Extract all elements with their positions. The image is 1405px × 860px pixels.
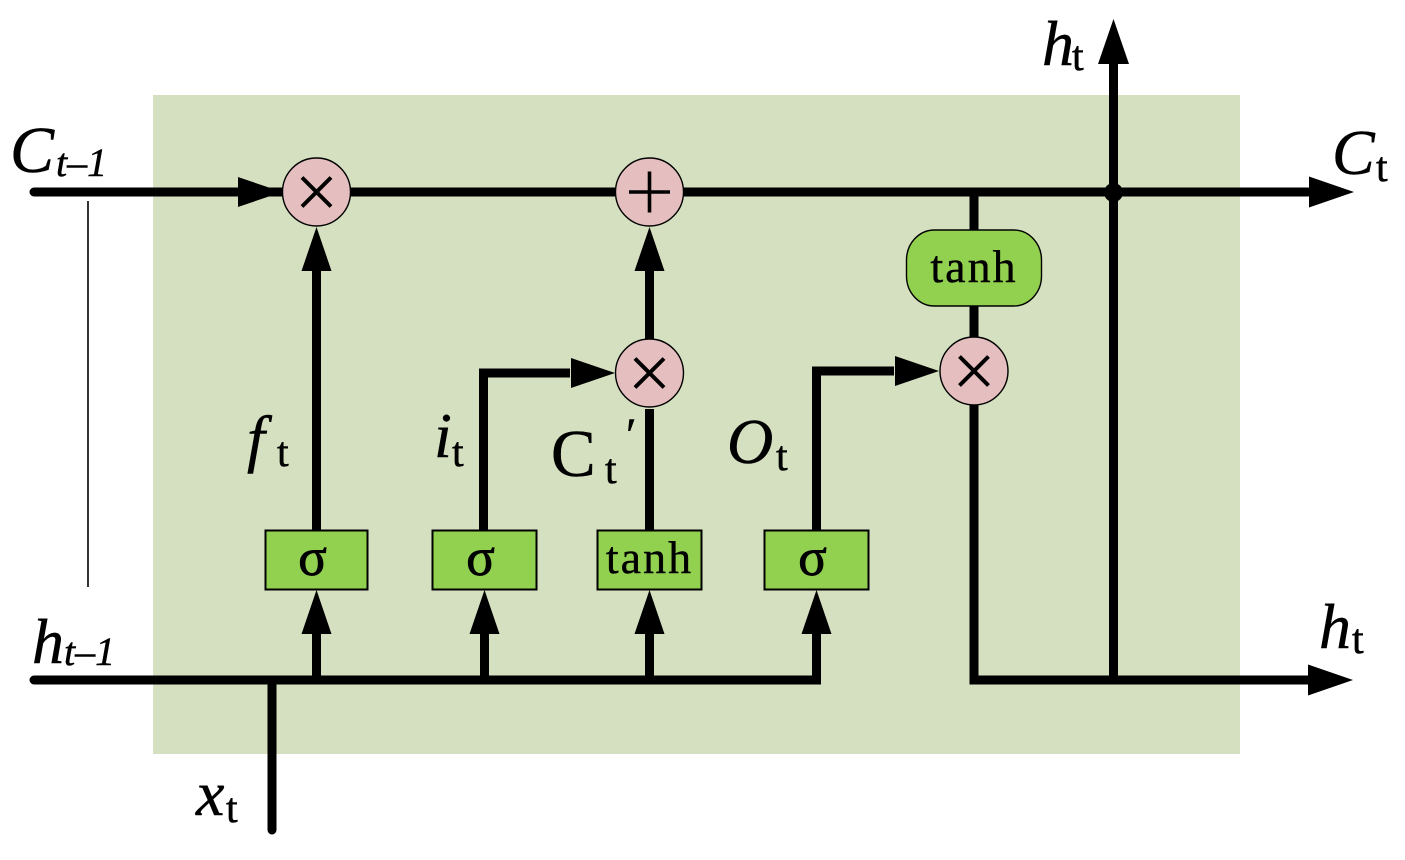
svg-text:′: ′ (626, 409, 637, 462)
svg-text:t–1: t–1 (64, 629, 115, 674)
wire: C line branch down into tanh capsule (970, 192, 979, 232)
svg-text:t: t (776, 434, 788, 480)
plus node (616, 158, 684, 226)
sigma gate (output) (765, 531, 869, 590)
arrowhead into O gate (802, 590, 832, 634)
svg-text:t: t (452, 430, 464, 476)
svg-text:x: x (195, 758, 224, 829)
svg-text:σ: σ (298, 529, 327, 587)
svg-text:O: O (727, 406, 773, 477)
thin recurrence line (87, 201, 89, 587)
multiply node 2 (616, 339, 684, 407)
wire: multiply node 2 up to plus node (645, 270, 654, 340)
tanh capsule (907, 230, 1042, 306)
svg-text:t: t (1376, 145, 1388, 191)
wire: cell state line C (34, 188, 1308, 197)
svg-text:t: t (1072, 34, 1084, 80)
wire+arrow: h into input gate (480, 632, 489, 680)
wire: tanh capsule to multiply node 3 (970, 304, 979, 340)
wire: multiply node 3 down and right to h_t output (974, 404, 1308, 680)
svg-text:t: t (277, 430, 289, 476)
multiply node 1 (283, 158, 351, 226)
svg-text:t–1: t–1 (56, 140, 107, 185)
wire+arrow: h into forget gate (312, 632, 321, 680)
svg-text:t: t (1352, 617, 1364, 663)
sigma gate (input) (433, 531, 537, 590)
multiply node 3 (940, 337, 1008, 405)
junction node on C line (1104, 183, 1123, 202)
svg-text:C: C (10, 114, 55, 187)
wire: O_t elbow into multiply node 3 (817, 371, 895, 532)
wire+arrow: h into tanh gate (645, 632, 654, 680)
svg-text:σ: σ (798, 529, 827, 587)
svg-text:σ: σ (466, 529, 495, 587)
svg-text:t: t (226, 786, 238, 832)
svg-text:t: t (605, 447, 617, 493)
svg-text:h: h (32, 606, 64, 677)
cell background (153, 95, 1240, 754)
wire: bottom h line left segment with corner up into sigma O gate (34, 633, 817, 680)
tanh gate (598, 531, 702, 590)
svg-text:C: C (1332, 117, 1376, 188)
svg-text:tanh: tanh (930, 241, 1017, 292)
svg-text:h: h (1042, 8, 1074, 79)
wire: C' from tanh gate up to multiply node 2 (645, 409, 654, 532)
svg-text:i: i (434, 400, 452, 471)
arrowhead C_t output (1309, 177, 1354, 208)
wire: i_t elbow into multiply node 2 (484, 373, 571, 532)
wire: h_t vertical output up (1109, 62, 1118, 680)
svg-text:h: h (1319, 591, 1351, 662)
svg-text:tanh: tanh (606, 532, 693, 583)
wire: f_t from sigma gate up to multiply node 1 (312, 270, 321, 532)
arrowhead h_t output right (1308, 665, 1353, 696)
svg-text:C: C (551, 417, 596, 491)
sigma gate (forget) (266, 531, 368, 590)
wire: x_t input drop (268, 680, 277, 830)
arrowhead into multiply node 1 (238, 177, 282, 207)
